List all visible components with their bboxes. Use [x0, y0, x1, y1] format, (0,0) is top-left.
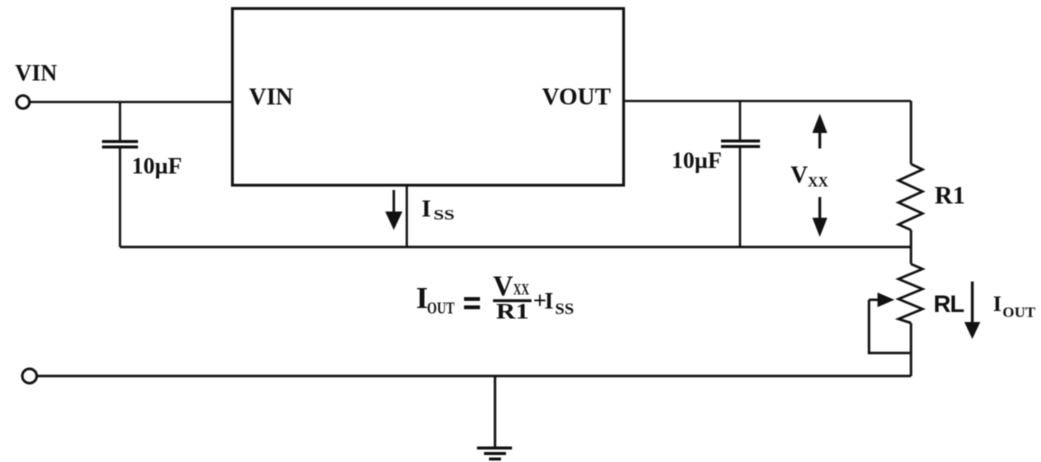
svg-text:I: I: [422, 196, 432, 223]
wire top to R1: [910, 101, 913, 164]
svg-text:VOUT: VOUT: [542, 85, 611, 111]
formula IOUT = VXX/R1 + ISS: [416, 272, 574, 324]
VXX up arrow: [812, 114, 827, 149]
svg-text:10µF: 10µF: [672, 148, 722, 173]
svg-text:OUT: OUT: [427, 299, 455, 318]
svg-text:XX: XX: [513, 282, 529, 299]
svg-text:SS: SS: [555, 301, 574, 318]
svg-text:VIN: VIN: [15, 61, 58, 86]
ground stem: [494, 376, 497, 447]
RL wiper arrow: [869, 293, 895, 308]
svg-text:I: I: [993, 291, 1002, 316]
regulator U1 box: [232, 9, 623, 186]
output terminal circle bottom: [22, 369, 36, 383]
capacitor C_in lead bottom: [119, 149, 121, 248]
current arrow ISS: [385, 190, 402, 230]
svg-text:I: I: [545, 289, 554, 314]
capacitor C_in lead top: [119, 102, 121, 140]
svg-text:V: V: [791, 163, 809, 189]
svg-text:XX: XX: [808, 175, 829, 191]
ground symbol: [477, 448, 512, 459]
capacitor C_out lead top: [739, 101, 741, 140]
input terminal circle: [17, 96, 30, 109]
wire R1 to bus: [910, 230, 913, 247]
svg-text:10µF: 10µF: [132, 154, 182, 179]
wire RL to bottom bus: [910, 323, 913, 376]
bottom bus wire: [38, 375, 912, 378]
capacitor C_in plates: [102, 140, 138, 143]
svg-text:R1: R1: [935, 182, 966, 209]
svg-text:RL: RL: [934, 291, 964, 318]
wire input to regulator VIN: [31, 101, 233, 103]
current arrow IOUT: [964, 282, 980, 340]
svg-text:SS: SS: [434, 208, 455, 224]
VXX down arrow: [812, 197, 827, 237]
capacitor C_out plates: [721, 140, 760, 143]
capacitor C_out lead bottom: [739, 148, 741, 247]
svg-text:R1: R1: [496, 298, 529, 323]
svg-text:VIN: VIN: [249, 85, 294, 111]
RL wiper hook wire: [869, 300, 910, 353]
middle bus wire: [120, 246, 911, 249]
wire ISS from box bottom to bus: [406, 185, 408, 247]
svg-text:OUT: OUT: [1003, 304, 1036, 321]
wire bus to RL: [910, 247, 913, 264]
resistor R1: [899, 164, 923, 230]
resistor RL: [899, 264, 923, 323]
wire VOUT to R1 top: [623, 100, 912, 102]
